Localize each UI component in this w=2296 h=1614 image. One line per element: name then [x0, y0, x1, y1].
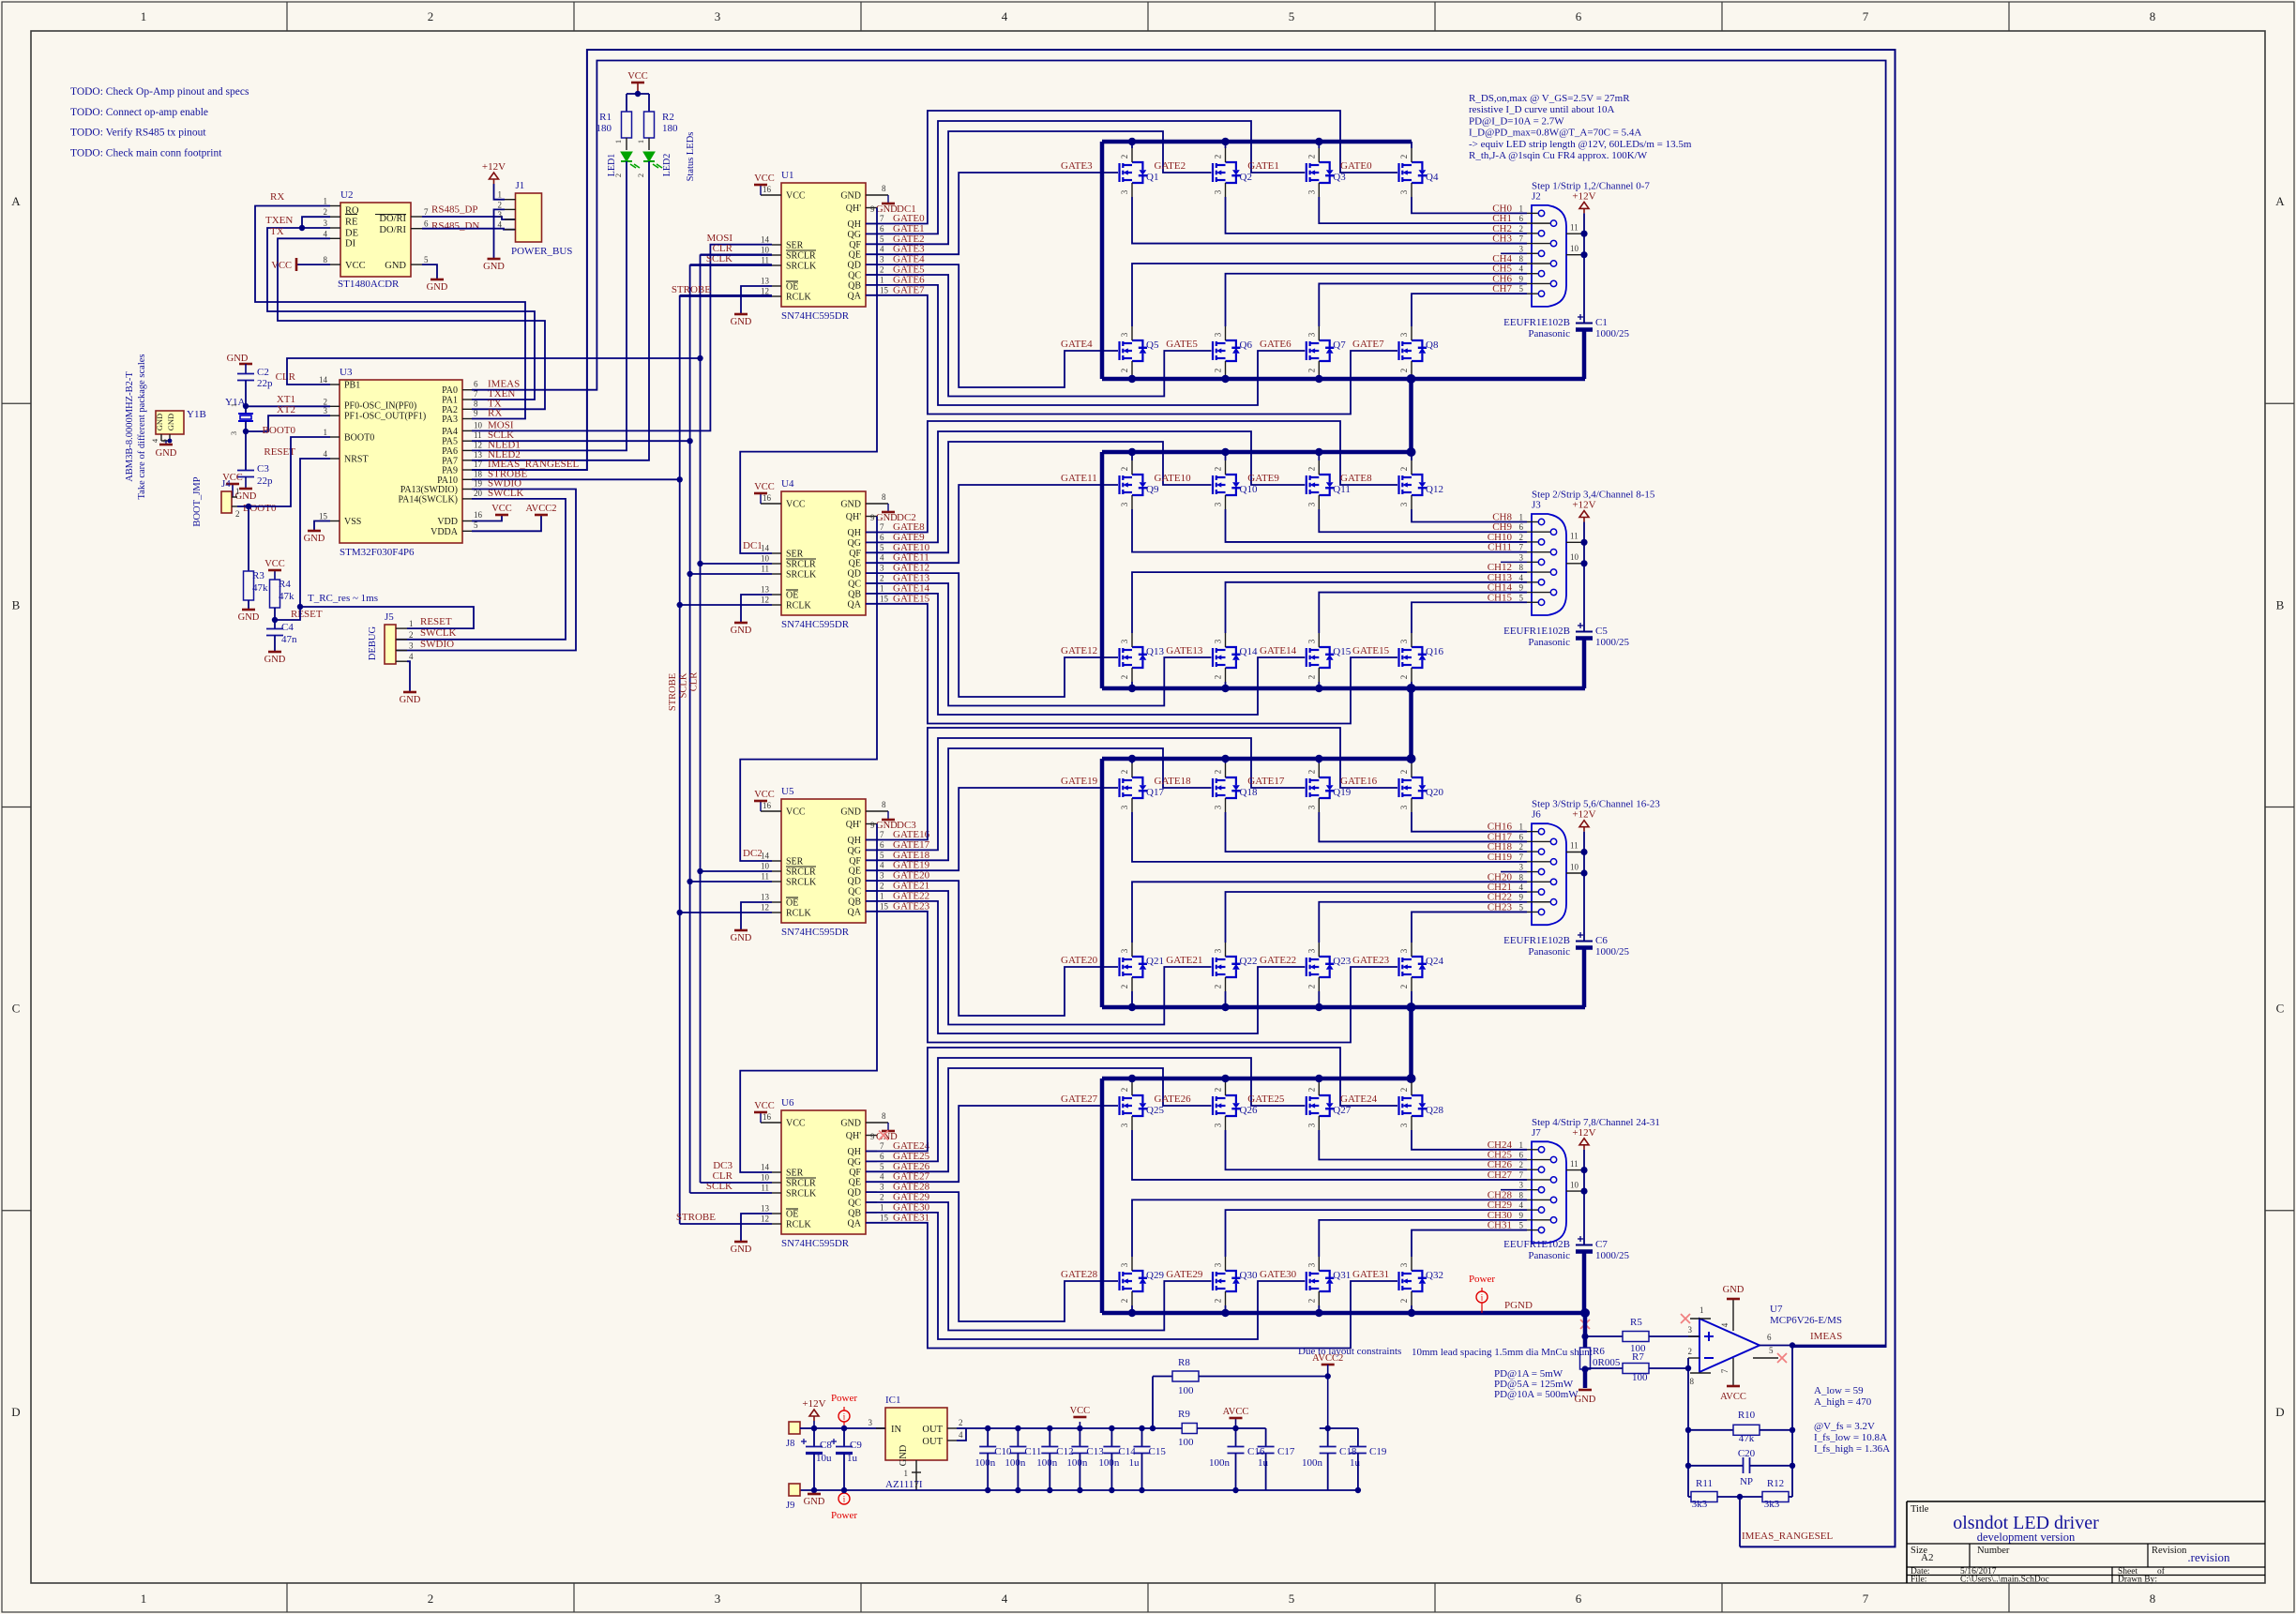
gate fan wires group 4	[866, 1106, 1118, 1182]
svg-text:VCC: VCC	[1070, 1406, 1091, 1416]
power bus bottom group 1	[1102, 377, 1585, 382]
svg-text:+12V: +12V	[482, 161, 506, 173]
svg-text:1: 1	[498, 190, 503, 200]
U1 GND pin8	[866, 194, 888, 196]
capacitor C13 100n	[1079, 1428, 1080, 1447]
svg-text:100n: 100n	[1066, 1457, 1088, 1469]
svg-text:100: 100	[1178, 1385, 1194, 1396]
svg-text:SRCLR: SRCLR	[786, 251, 816, 262]
svg-text:VCC: VCC	[627, 71, 648, 82]
svg-text:Number: Number	[1977, 1546, 2010, 1556]
svg-text:C19: C19	[1369, 1446, 1387, 1457]
wire Q30 drain to bottom bus	[1225, 1305, 1227, 1313]
svg-text:11: 11	[1570, 841, 1578, 851]
svg-text:GATE27: GATE27	[1061, 1094, 1098, 1105]
svg-text:C16: C16	[1247, 1446, 1265, 1457]
capacitor C16 100n	[1235, 1428, 1237, 1447]
wire +12V rail to capacitor C5	[1583, 522, 1585, 632]
svg-text:Revision: Revision	[2152, 1546, 2187, 1556]
svg-text:VDDA: VDDA	[430, 527, 459, 537]
svg-text:R7: R7	[1632, 1351, 1644, 1363]
wire thick PGND down to shunt	[1583, 1313, 1588, 1348]
svg-text:2: 2	[1120, 467, 1129, 472]
svg-text:16: 16	[763, 493, 772, 503]
svg-text:VCC: VCC	[786, 500, 806, 510]
U7 pin5 NC	[1753, 1357, 1778, 1359]
resistor R1 180	[626, 94, 627, 112]
bus link from group 1 to group 2	[1409, 379, 1413, 452]
svg-text:5: 5	[1519, 902, 1524, 912]
svg-text:3: 3	[1214, 1123, 1223, 1127]
svg-text:3: 3	[880, 564, 884, 573]
svg-text:8: 8	[1519, 563, 1524, 572]
connector J1 POWER_BUS body	[516, 193, 542, 242]
IC U4 SN74HC595DR body	[781, 491, 866, 615]
svg-text:6: 6	[1767, 1333, 1772, 1342]
svg-text:GATE5: GATE5	[1166, 339, 1198, 350]
U4 GND pin8	[866, 503, 888, 505]
svg-text:QB: QB	[848, 897, 861, 907]
svg-text:QE: QE	[849, 559, 861, 569]
svg-text:1: 1	[324, 197, 328, 206]
svg-text:STROBE: STROBE	[676, 1212, 716, 1223]
svg-text:NP: NP	[1740, 1476, 1753, 1487]
channel wires group 4 top row	[1411, 0, 1412, 1130]
svg-text:7: 7	[880, 830, 884, 839]
svg-text:2: 2	[1214, 985, 1223, 989]
svg-text:Y1B: Y1B	[187, 409, 206, 420]
svg-text:J5: J5	[385, 611, 394, 623]
svg-text:QE: QE	[849, 867, 861, 877]
wire Q29 drain to bottom bus	[1131, 1305, 1133, 1313]
wire Q9 drain to bus	[1131, 452, 1133, 460]
U7 pin1 NC	[1690, 1318, 1711, 1320]
svg-text:3: 3	[229, 431, 238, 435]
svg-text:13: 13	[761, 277, 770, 286]
svg-text:RESET: RESET	[420, 616, 452, 627]
bottom GND rail	[800, 1489, 1358, 1491]
power +12V at J3	[1583, 518, 1585, 522]
svg-text:CH15: CH15	[1488, 592, 1513, 603]
svg-text:4: 4	[324, 229, 328, 238]
wire Q1 drain to bus	[1131, 142, 1133, 148]
svg-text:GATE3: GATE3	[1061, 160, 1093, 172]
power VCC on rail	[1079, 1422, 1080, 1428]
svg-text:5: 5	[1519, 284, 1524, 294]
wire TX U2.DI to U3.TX	[278, 238, 545, 409]
IC U1 SN74HC595DR body	[781, 183, 866, 307]
svg-text:C17: C17	[1277, 1446, 1295, 1457]
svg-text:SN74HC595DR: SN74HC595DR	[781, 1238, 850, 1249]
svg-text:J4: J4	[221, 478, 231, 490]
svg-text:GATE10: GATE10	[1155, 473, 1192, 484]
svg-text:2: 2	[1399, 369, 1409, 373]
svg-text:3: 3	[1399, 1262, 1409, 1267]
wire NLED2 vertical to U3	[472, 161, 649, 460]
capacitor C17 1u	[1265, 1428, 1267, 1447]
svg-text:2: 2	[1519, 224, 1524, 234]
svg-text:C4: C4	[281, 622, 294, 633]
svg-text:QG: QG	[848, 1157, 861, 1168]
svg-text:CH19: CH19	[1488, 852, 1513, 863]
svg-text:9: 9	[870, 821, 875, 830]
wire Q10 drain to bus	[1225, 452, 1227, 460]
wire RS485_DP U2.7 to J1.3	[422, 217, 516, 219]
U5 GND pin8	[866, 810, 888, 812]
transistor Q14	[1213, 647, 1241, 668]
svg-text:RCLK: RCLK	[786, 909, 811, 919]
connector J2 pins 11 10	[1566, 233, 1584, 234]
svg-text:5: 5	[880, 1162, 884, 1171]
svg-text:GND: GND	[156, 448, 177, 459]
svg-text:6: 6	[1519, 522, 1524, 532]
svg-text:GND: GND	[840, 191, 861, 202]
svg-text:4: 4	[880, 1172, 884, 1182]
svg-text:AVCC: AVCC	[1223, 1407, 1249, 1417]
svg-text:R_th,J-A @1sqin Cu FR4 approx.: R_th,J-A @1sqin Cu FR4 approx. 100K/W	[1469, 150, 1648, 161]
svg-text:16: 16	[474, 510, 483, 520]
svg-text:QG: QG	[848, 538, 861, 549]
svg-text:QH: QH	[848, 1147, 861, 1157]
svg-text:100n: 100n	[1302, 1457, 1323, 1469]
wire XT2 from U3	[246, 415, 330, 431]
resistor R6 shunt 0R005	[1580, 1348, 1591, 1369]
svg-text:C1: C1	[1595, 317, 1608, 328]
wire capacitor C1 to bottom bus	[1582, 330, 1587, 380]
channel wires group 3 bottom row	[1132, 882, 1527, 943]
svg-text:GND: GND	[427, 282, 448, 293]
capacitor C10 100n	[987, 1428, 989, 1447]
transistor Q1	[1120, 162, 1148, 183]
svg-text:6: 6	[1576, 1591, 1582, 1606]
svg-text:GATE16: GATE16	[1340, 776, 1378, 787]
svg-text:GATE23: GATE23	[893, 900, 930, 912]
svg-text:3: 3	[1120, 502, 1129, 506]
svg-text:AVCC2: AVCC2	[525, 504, 556, 514]
svg-text:R4: R4	[279, 579, 291, 590]
svg-text:QF: QF	[849, 549, 861, 559]
svg-text:GATE15: GATE15	[1352, 645, 1390, 656]
wire Q31 drain to bottom bus	[1318, 1305, 1320, 1313]
svg-text:DO/RI: DO/RI	[379, 214, 406, 224]
svg-text:2: 2	[1307, 985, 1316, 989]
channel wires group 2 bottom row	[1132, 572, 1527, 633]
svg-text:8: 8	[882, 184, 886, 193]
power bus top group 2	[1102, 450, 1412, 455]
svg-text:CH31: CH31	[1488, 1220, 1512, 1231]
svg-text:Q24: Q24	[1426, 956, 1443, 967]
svg-text:R3: R3	[252, 570, 264, 581]
wire +12V rail to capacitor C6	[1583, 832, 1585, 942]
wire SWCLK to J5	[396, 499, 566, 640]
svg-text:2: 2	[428, 1591, 434, 1606]
transistor Q22	[1213, 957, 1241, 977]
capacitor C4 47n	[266, 628, 283, 630]
svg-text:2: 2	[1120, 155, 1129, 159]
svg-text:PA4: PA4	[442, 427, 458, 437]
svg-text:180: 180	[597, 123, 612, 134]
svg-text:2: 2	[1214, 467, 1223, 472]
wire Q27 drain to bus	[1318, 1079, 1320, 1081]
wire Q28 drain to bus	[1411, 1079, 1412, 1081]
svg-text:13: 13	[761, 893, 770, 902]
wire Q24 drain to bottom bus	[1411, 991, 1412, 1007]
svg-text:QG: QG	[848, 846, 861, 856]
svg-text:Q3: Q3	[1333, 172, 1346, 183]
resistor R11 3k3	[1688, 1496, 1691, 1498]
svg-text:15: 15	[880, 594, 889, 603]
svg-text:3: 3	[1399, 639, 1409, 643]
wire +12V rail to capacitor C7	[1583, 1150, 1585, 1245]
transistor Q11	[1307, 475, 1335, 495]
svg-text:J2: J2	[1532, 190, 1541, 202]
svg-text:+12V: +12V	[1572, 809, 1595, 821]
power +12V at regulator input	[813, 1421, 815, 1428]
wire TXEN to U3	[267, 228, 535, 400]
connector J3 stub pin3	[1501, 561, 1527, 563]
svg-text:10: 10	[1570, 862, 1579, 871]
wire Q20 drain to bus	[1411, 759, 1412, 763]
wire RCLK feed U5	[680, 912, 772, 913]
wire Q4 drain to bus	[1411, 142, 1412, 148]
svg-text:2: 2	[1399, 770, 1409, 775]
svg-text:Q18: Q18	[1240, 787, 1258, 798]
svg-text:3: 3	[1120, 948, 1129, 953]
svg-text:C3: C3	[257, 463, 269, 475]
svg-text:ST1480ACDR: ST1480ACDR	[338, 279, 400, 290]
connector J3 pins 11 10	[1566, 541, 1584, 543]
svg-text:GATE7: GATE7	[893, 284, 925, 295]
svg-text:3: 3	[1519, 863, 1524, 872]
svg-text:Q4: Q4	[1426, 172, 1439, 183]
wire RCLK feed U6	[680, 1223, 772, 1225]
U6 VCC pin16	[761, 1122, 781, 1124]
svg-text:13: 13	[761, 585, 770, 595]
svg-text:1000/25: 1000/25	[1595, 637, 1630, 648]
svg-text:7: 7	[880, 522, 884, 532]
svg-text:SRCLR: SRCLR	[786, 867, 816, 878]
wire Q13 drain to bottom bus	[1131, 682, 1133, 688]
svg-text:3: 3	[880, 871, 884, 881]
wire Q12 drain to bus	[1411, 452, 1412, 460]
wire SCLK vertical	[472, 440, 690, 442]
svg-text:11: 11	[761, 872, 769, 882]
svg-text:3: 3	[1120, 805, 1129, 809]
svg-text:Panasonic: Panasonic	[1528, 1250, 1570, 1261]
svg-text:@V_fs = 3.2V: @V_fs = 3.2V	[1814, 1421, 1875, 1432]
svg-text:9: 9	[1519, 583, 1524, 593]
svg-text:OE: OE	[786, 282, 798, 293]
svg-text:C10: C10	[994, 1446, 1012, 1457]
wire Q26 drain to bus	[1225, 1079, 1227, 1081]
svg-text:VCC: VCC	[754, 790, 775, 800]
power +12V at J7	[1583, 1145, 1585, 1150]
svg-text:15: 15	[319, 512, 328, 521]
svg-text:3: 3	[1399, 805, 1409, 809]
svg-text:Q22: Q22	[1240, 956, 1258, 967]
channel wires group 2 top row	[1411, 0, 1412, 509]
svg-text:7: 7	[1519, 543, 1524, 552]
noerc marker below bus	[1580, 1320, 1590, 1329]
svg-text:Step 3/Strip 5,6/Channel 16-23: Step 3/Strip 5,6/Channel 16-23	[1532, 799, 1660, 810]
wire IMEAS_RANGESEL from divider	[1739, 1497, 1741, 1546]
svg-text:5: 5	[424, 255, 429, 264]
svg-text:PGND: PGND	[1504, 1300, 1533, 1311]
svg-text:2: 2	[880, 574, 884, 583]
svg-text:GATE12: GATE12	[1061, 645, 1097, 656]
svg-text:GND: GND	[1723, 1285, 1745, 1295]
svg-text:GATE26: GATE26	[1155, 1094, 1192, 1105]
crystal Y1B package stub body	[156, 411, 184, 434]
wire RCLK feed U1	[680, 295, 772, 297]
wire SRCLR feed U5	[701, 870, 773, 872]
svg-text:SER: SER	[786, 241, 804, 251]
svg-text:GND: GND	[304, 534, 325, 544]
svg-text:2: 2	[1399, 1299, 1409, 1304]
svg-text:2: 2	[1519, 533, 1524, 542]
svg-text:Q12: Q12	[1426, 484, 1443, 495]
svg-text:3: 3	[1519, 244, 1524, 253]
svg-text:3: 3	[715, 1591, 721, 1606]
wire capacitor C5 to bottom bus	[1582, 639, 1587, 689]
svg-text:9: 9	[870, 1132, 875, 1141]
svg-text:2: 2	[1688, 1347, 1693, 1356]
svg-text:resistive I_D curve until abou: resistive I_D curve until about 10A	[1469, 104, 1615, 115]
svg-text:RCLK: RCLK	[786, 1220, 811, 1230]
LED LED2 green	[648, 138, 650, 150]
svg-text:GATE20: GATE20	[1061, 955, 1098, 966]
svg-text:12: 12	[761, 596, 769, 605]
svg-text:U2: U2	[340, 189, 353, 201]
svg-text:GATE24: GATE24	[1340, 1094, 1378, 1105]
svg-text:8: 8	[1519, 1190, 1524, 1199]
svg-text:Q23: Q23	[1333, 956, 1351, 967]
U4 OE to GND	[741, 595, 772, 623]
svg-text:11: 11	[761, 565, 769, 574]
U5 QH' pin9	[866, 823, 877, 825]
svg-text:XT2: XT2	[277, 404, 295, 415]
svg-text:TX: TX	[270, 226, 284, 237]
svg-text:3: 3	[1307, 805, 1316, 809]
svg-text:0R005: 0R005	[1593, 1357, 1621, 1368]
svg-text:2: 2	[1399, 155, 1409, 159]
svg-text:C14: C14	[1118, 1446, 1136, 1457]
transistor Q19	[1307, 777, 1335, 798]
svg-text:RX: RX	[270, 191, 284, 203]
svg-text:16: 16	[763, 185, 772, 194]
transistor Q30	[1213, 1271, 1241, 1291]
svg-text:Q13: Q13	[1146, 646, 1164, 657]
svg-text:7: 7	[424, 207, 429, 217]
svg-text:1: 1	[636, 140, 645, 143]
svg-text:3: 3	[1307, 639, 1316, 643]
capacitor C7 1000/25 polarized	[1576, 1244, 1593, 1246]
svg-text:16: 16	[763, 801, 772, 810]
svg-text:BOOT0: BOOT0	[263, 425, 296, 436]
svg-text:7: 7	[1519, 1170, 1524, 1180]
svg-text:2: 2	[235, 509, 240, 519]
svg-text:Q27: Q27	[1333, 1105, 1351, 1116]
power GND below C3	[245, 477, 247, 490]
svg-text:Q16: Q16	[1426, 646, 1443, 657]
svg-text:QH': QH'	[846, 204, 861, 214]
svg-text:Q6: Q6	[1240, 339, 1253, 351]
svg-text:SER: SER	[786, 857, 804, 867]
svg-text:Q28: Q28	[1426, 1105, 1443, 1116]
wire DC1 daisy chain	[740, 208, 877, 554]
power VCC above R1 R2	[637, 83, 639, 94]
svg-text:QF: QF	[849, 1168, 861, 1178]
svg-text:1: 1	[880, 891, 884, 900]
svg-text:STROBE: STROBE	[672, 284, 711, 295]
wire C2 to crystal	[245, 381, 247, 414]
svg-text:1: 1	[324, 428, 328, 437]
IC U6 SN74HC595DR body	[781, 1110, 866, 1234]
U5 OE to GND	[741, 902, 772, 930]
svg-text:2: 2	[1307, 675, 1316, 680]
connector J7 stub pin3	[1501, 1189, 1527, 1191]
svg-text:2: 2	[409, 630, 414, 640]
svg-text:10u: 10u	[816, 1453, 832, 1464]
svg-text:SN74HC595DR: SN74HC595DR	[781, 619, 850, 630]
wire BOOT0 J4 to U3	[237, 437, 330, 506]
svg-text:VCC: VCC	[264, 559, 285, 569]
connector J9 pad	[789, 1484, 800, 1496]
svg-text:QC: QC	[848, 271, 861, 281]
svg-text:U4: U4	[781, 478, 794, 490]
svg-text:RS485_DN: RS485_DN	[431, 220, 479, 232]
wire capacitor C6 to bottom bus	[1582, 948, 1587, 1008]
connector J5 DEBUG body	[385, 625, 396, 664]
svg-text:Q26: Q26	[1240, 1105, 1258, 1116]
svg-text:3: 3	[1214, 332, 1223, 337]
U7 pin4 to GND	[1732, 1299, 1734, 1331]
channel wires group 1 top row	[1411, 0, 1412, 197]
capacitor C3 22p	[237, 470, 254, 472]
svg-text:development version: development version	[1977, 1531, 2076, 1544]
svg-text:IMEAS: IMEAS	[1810, 1331, 1842, 1342]
svg-text:R2: R2	[662, 112, 674, 123]
svg-text:DEBUG: DEBUG	[368, 626, 378, 661]
wire CLR vertical	[700, 254, 702, 1183]
svg-text:100: 100	[1632, 1372, 1648, 1383]
svg-text:10: 10	[1570, 552, 1579, 562]
svg-text:Panasonic: Panasonic	[1528, 328, 1570, 339]
power bus top group 4	[1102, 1077, 1412, 1081]
wire DC3 daisy chain	[740, 824, 877, 1173]
svg-text:4: 4	[880, 553, 884, 563]
U6 output pins	[866, 1151, 877, 1153]
svg-text:GATE23: GATE23	[1352, 955, 1390, 966]
svg-text:6: 6	[1519, 1151, 1524, 1160]
svg-text:C2: C2	[257, 367, 269, 378]
svg-text:6: 6	[1519, 214, 1524, 223]
power bus left vertical group 1	[1100, 142, 1105, 379]
svg-text:7: 7	[1720, 1368, 1730, 1373]
svg-text:4: 4	[1519, 882, 1524, 892]
svg-text:D: D	[2275, 1405, 2284, 1419]
IC U3 STM32F030F4P6 body	[340, 380, 462, 543]
svg-text:GND: GND	[840, 807, 861, 818]
resistor R9 100 inline	[1182, 1424, 1197, 1434]
U6 GND pin8	[866, 1122, 888, 1124]
svg-text:10: 10	[1570, 1180, 1579, 1189]
svg-text:+12V: +12V	[1572, 1127, 1595, 1139]
bus link from group 3 to group 4	[1409, 1007, 1413, 1079]
svg-text:A_low = 59: A_low = 59	[1814, 1385, 1864, 1396]
power GND at J1 pin2	[494, 209, 506, 259]
wire J5 pin4 to GND	[407, 661, 410, 692]
